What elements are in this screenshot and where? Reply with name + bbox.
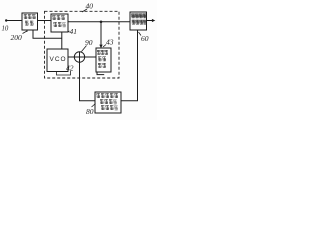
svg-text:40: 40 bbox=[86, 2, 94, 11]
svg-text:80: 80 bbox=[86, 107, 94, 116]
svg-text:41: 41 bbox=[70, 27, 78, 36]
svg-text:90: 90 bbox=[85, 38, 93, 47]
svg-text:43: 43 bbox=[106, 38, 114, 47]
svg-text:10: 10 bbox=[2, 26, 9, 33]
svg-text:60: 60 bbox=[141, 34, 149, 43]
svg-text:200: 200 bbox=[11, 33, 23, 42]
svg-text:42: 42 bbox=[66, 64, 74, 73]
svg-text:VCO: VCO bbox=[50, 56, 67, 63]
